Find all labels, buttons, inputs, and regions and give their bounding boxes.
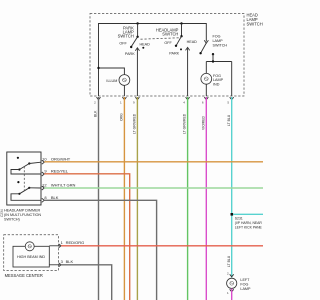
svg-text:FOG: FOG	[213, 34, 221, 38]
headlamp switch assembly dashed box	[90, 14, 244, 97]
svg-text:ORG: ORG	[120, 113, 124, 121]
wire RED/YEL (horizontal then down)	[44, 174, 129, 300]
fog ind left wire	[205, 62, 207, 74]
illumination feed wire	[99, 68, 125, 75]
svg-text:BLK: BLK	[66, 259, 74, 264]
wire VIO below fog lamp	[231, 289, 233, 300]
park lamp switch blade tip	[130, 46, 132, 48]
svg-text:PARK: PARK	[169, 51, 179, 55]
svg-text:SWITCH: SWITCH	[213, 43, 228, 47]
svg-text:ILLUM: ILLUM	[106, 79, 117, 83]
high beam indicator lamp	[25, 242, 34, 251]
dimmer upper pivot wire to pin 9	[11, 170, 41, 175]
wire LT GRN/RED park feed (vertical olive)	[136, 97, 138, 300]
mechanical link dashes between switches	[141, 38, 180, 39]
dimmer pin chevrons	[42, 160, 45, 202]
node: bus junction headlamp switch	[180, 22, 182, 24]
headlamp switch stub wire	[181, 24, 183, 37]
fog lamp switch blade	[201, 43, 207, 53]
svg-text:LT BLU: LT BLU	[227, 255, 231, 267]
svg-text:VIO/RED: VIO/RED	[201, 116, 205, 130]
svg-text:LEFT KICK PANE: LEFT KICK PANE	[235, 225, 263, 229]
fog lamp indicator top wire	[206, 61, 231, 63]
headlamp switch blade tip	[175, 45, 177, 47]
message center inner box	[13, 246, 49, 267]
headlamp switch PARK contact	[180, 48, 182, 50]
headlamp dimmer box	[7, 152, 41, 205]
headlamp HEAD output wire down	[187, 48, 189, 96]
svg-text:(I/P HARN, NEAR: (I/P HARN, NEAR	[235, 221, 263, 225]
wire VIO/RED (vertical magenta)	[205, 97, 207, 300]
node: bus junction park lamp switch	[136, 22, 138, 24]
park lamp switch label	[118, 26, 134, 39]
wire ORG (vertical)	[123, 97, 125, 300]
dimmer upper pivot	[18, 168, 20, 170]
svg-text:OFF: OFF	[164, 41, 172, 45]
svg-text:(IN MULTI-FUNCTION: (IN MULTI-FUNCTION	[4, 213, 41, 217]
connector pin chevrons at box bottom	[97, 97, 234, 100]
LEFT FOG LAMP label	[240, 278, 251, 291]
fog ind lamp wire down	[205, 84, 207, 96]
park lamp switch blade	[131, 37, 137, 47]
wire ORG/WHT (horizontal)	[44, 161, 263, 163]
svg-text:RED/ORG: RED/ORG	[66, 240, 85, 245]
message center dashed box	[4, 235, 59, 271]
svg-text:SWITCH: SWITCH	[118, 34, 134, 39]
left fog lamp	[227, 278, 237, 288]
dimmer lower blade	[19, 188, 29, 194]
illumination lamp wire down	[123, 86, 125, 97]
connector pin numbers	[94, 101, 229, 105]
svg-text:RED/YEL: RED/YEL	[51, 169, 69, 174]
headlamp dimmer label	[4, 208, 41, 221]
park lamp switch HEAD contact dot	[142, 47, 144, 49]
splice S231	[231, 213, 234, 216]
FOG LAMP IND label	[213, 74, 224, 87]
message center pin chevrons	[59, 244, 62, 267]
message center pin 3 stub	[49, 264, 60, 266]
svg-text:WHT/LT GRN: WHT/LT GRN	[51, 183, 76, 188]
svg-text:PARK: PARK	[125, 52, 135, 56]
fog lamp switch blade tip	[199, 52, 201, 54]
wire BLK from switch (vertical)	[98, 97, 100, 300]
svg-text:LEFT: LEFT	[240, 278, 250, 282]
left fog lamp lower pin chevron	[230, 289, 234, 292]
dimmer lower pivot wire to pin 8	[11, 194, 41, 201]
fog ind right wire down	[231, 62, 233, 97]
dimmer lower pivot	[18, 193, 20, 195]
svg-text:LT BLU: LT BLU	[227, 114, 231, 126]
dimmer wire labels	[51, 157, 76, 200]
svg-text:ORG/WHT: ORG/WHT	[51, 157, 71, 162]
svg-text:FOG: FOG	[240, 283, 248, 287]
dimmer pin numbers	[42, 157, 47, 200]
svg-text:C234: C234	[0, 209, 4, 217]
dimmer upper blade	[19, 164, 29, 170]
left fog lamp pin 2 chevron	[230, 274, 234, 277]
node: illumination junction on left edge	[97, 67, 99, 69]
svg-text:S231: S231	[235, 217, 243, 221]
wire BLK message center (horizontal then down)	[61, 265, 112, 300]
wire WHT/LT GRN (horizontal)	[44, 187, 263, 189]
wire BLK dimmer (horizontal then down)	[44, 200, 156, 300]
svg-text:LT GRN/RED: LT GRN/RED	[133, 113, 137, 134]
switch body bus: top edge, left edge, right edge stub	[99, 24, 207, 97]
headlamp switch HEAD contact arrow	[186, 47, 190, 50]
message center pin 1 stub	[49, 245, 60, 247]
svg-text:FOG: FOG	[213, 74, 221, 78]
svg-text:LAMP: LAMP	[240, 287, 251, 291]
svg-text:SWITCH): SWITCH)	[4, 218, 20, 222]
node: fog ind junction	[212, 60, 214, 62]
svg-text:OFF: OFF	[119, 41, 127, 45]
wire LT GRN/RED head feed (vertical green)	[187, 97, 189, 300]
headlamp switch blade	[176, 36, 182, 46]
svg-text:LAMP: LAMP	[213, 78, 224, 82]
dimmer lower unconnected contact	[17, 181, 19, 183]
svg-text:SWITCH: SWITCH	[162, 31, 178, 36]
svg-text:HEAD: HEAD	[187, 40, 198, 44]
dimmer lower contact	[28, 187, 30, 189]
svg-text:BLK: BLK	[51, 195, 59, 200]
svg-text:MESSAGE CENTER: MESSAGE CENTER	[5, 273, 43, 278]
svg-text:10: 10	[42, 157, 47, 162]
label: HEAD LAMP SWITCH	[247, 13, 263, 27]
park lamp switch HEAD contact arrow	[135, 48, 139, 51]
fog lamp indicator lamp	[201, 73, 212, 84]
S231 label	[235, 217, 263, 230]
svg-text:LT GRN/RED: LT GRN/RED	[183, 113, 187, 134]
svg-text:IND: IND	[213, 83, 220, 87]
fog lamp switch blade arrow	[204, 40, 208, 43]
dimmer lower contact wire to pin 12	[29, 187, 41, 189]
park lamp output wire down	[136, 49, 138, 96]
headlamp switch label	[156, 27, 179, 36]
svg-text:HIGH BEAM IND: HIGH BEAM IND	[17, 255, 45, 259]
svg-text:BLK: BLK	[94, 110, 98, 117]
svg-text:SWITCH: SWITCH	[247, 22, 263, 27]
dimmer upper unconnected contact	[17, 157, 19, 159]
svg-text:HEAD: HEAD	[140, 42, 151, 46]
svg-text:LAMP: LAMP	[213, 39, 224, 43]
dimmer mechanical link dashes	[23, 167, 25, 192]
park lamp switch stub wire	[137, 24, 139, 37]
park lamp switch pivot	[136, 36, 138, 38]
dimmer upper contact	[28, 162, 30, 164]
dimmer upper contact wire to pin 10	[29, 162, 41, 163]
fog lamp switch label	[213, 34, 228, 47]
svg-text:12: 12	[42, 183, 47, 188]
illumination lamp	[119, 75, 130, 86]
headlamp switch pivot	[180, 35, 182, 37]
fog switch contact stub down	[212, 54, 214, 61]
wire LT BLU branch right	[233, 213, 263, 215]
svg-text:HEADLAMP DIMMER: HEADLAMP DIMMER	[4, 208, 41, 212]
wire RED/ORG (horizontal)	[61, 245, 263, 247]
fog lamp switch contact	[212, 53, 214, 55]
wire LT BLU (vertical cyan)	[231, 97, 233, 278]
